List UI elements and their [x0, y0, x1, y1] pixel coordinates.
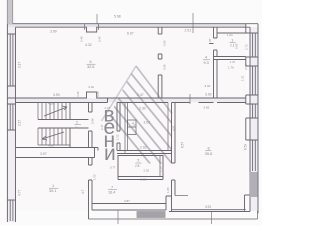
- svg-text:0.40: 0.40: [98, 36, 102, 42]
- right wall window4 mullions: [253, 140, 256, 171]
- bathroom toilet fixture: [128, 120, 137, 135]
- bathroom bottom wall: [117, 151, 172, 154]
- room3 bottom wall: [214, 57, 246, 60]
- svg-text:3.92: 3.92: [205, 93, 212, 97]
- left wall window2 mullions (stairs): [10, 104, 13, 130]
- svg-text:3.02: 3.02: [205, 84, 211, 88]
- svg-text:2.47: 2.47: [100, 124, 104, 130]
- svg-text:2.8: 2.8: [135, 164, 140, 168]
- left wall window2 sills: [7, 104, 15, 130]
- svg-text:6: 6: [90, 60, 92, 64]
- left outer wall outer line: [6, 0, 8, 222]
- svg-text:l.k: l.k: [75, 126, 79, 130]
- svg-text:0.45: 0.45: [76, 91, 80, 97]
- svg-text:2: 2: [76, 121, 78, 125]
- dimension tick x211.7: [211, 212, 213, 225]
- svg-text:0.77: 0.77: [110, 166, 116, 170]
- watermark hatch stripes: [97, 71, 225, 214]
- svg-text:2.87: 2.87: [124, 199, 130, 203]
- svg-text:2.47: 2.47: [137, 93, 144, 97]
- svg-text:3: 3: [232, 39, 234, 43]
- label fraction bars: [49, 43, 236, 190]
- stairs upper arrow: [44, 106, 67, 116]
- svg-text:4.7: 4.7: [81, 189, 85, 194]
- middle wall door jamb tick: [107, 98, 109, 103]
- svg-text:2.91: 2.91: [185, 29, 192, 33]
- svg-text:1.87: 1.87: [208, 38, 212, 44]
- room7 bottom wall: [92, 204, 166, 211]
- svg-text:4.26: 4.26: [48, 143, 54, 147]
- room3 top inner line: [217, 32, 246, 34]
- svg-text:2.02: 2.02: [144, 121, 151, 125]
- svg-text:0.45: 0.45: [96, 91, 100, 97]
- right wall grey segment: [250, 172, 258, 197]
- svg-text:0.89: 0.89: [163, 64, 167, 70]
- svg-text:1.01: 1.01: [227, 33, 233, 37]
- svg-text:9.3: 9.3: [204, 61, 209, 65]
- left wall window1 sills: [7, 34, 15, 86]
- right wall window2 mullions: [253, 66, 256, 95]
- right wall window1 mullions: [253, 33, 256, 57]
- top wall outer line: [7, 23, 258, 25]
- svg-text:1.47: 1.47: [230, 60, 236, 64]
- right outer wall outer line: [257, 24, 259, 214]
- svg-text:0.40: 0.40: [89, 85, 95, 89]
- svg-text:6.07: 6.07: [127, 32, 134, 36]
- svg-text:1.76: 1.76: [228, 66, 234, 70]
- hall right wall x117-120 with door gap: [117, 103, 120, 151]
- stairs bottom thick wall: [15, 148, 98, 158]
- svg-text:и: и: [104, 142, 116, 165]
- grey block outline: [137, 212, 165, 218]
- svg-text:0.95: 0.95: [235, 43, 239, 49]
- pipe chase x125-127.5: [125, 103, 128, 154]
- bottom grey block fill: [137, 212, 165, 218]
- room4 right wall (x213.5-217) with door gap: [214, 27, 218, 98]
- svg-text:2.30: 2.30: [139, 107, 146, 111]
- svg-text:3.91: 3.91: [205, 205, 211, 209]
- left wall inner line: [15, 27, 17, 222]
- room5 bottom double line: [118, 177, 163, 180]
- svg-text:32.6: 32.6: [87, 65, 94, 69]
- svg-text:2.17: 2.17: [18, 62, 22, 68]
- svg-text:35.6: 35.6: [205, 152, 212, 156]
- svg-text:3.99: 3.99: [50, 29, 57, 33]
- right wall window3 mullions: [253, 104, 256, 118]
- svg-text:2.02: 2.02: [144, 169, 150, 173]
- svg-text:3.97: 3.97: [40, 152, 47, 156]
- room8 bottom wall: [169, 210, 250, 212]
- stairs right wall x88.5-92 with door gap: [89, 103, 93, 148]
- middle wall upper line with niche up: [7, 92, 245, 98]
- bathroom right wall x168-171.5: [167, 103, 169, 151]
- dimension extension tick x190 mid wall: [189, 94, 191, 104]
- top wall niche jamb ticks: [85, 24, 99, 30]
- svg-text:16.4: 16.4: [108, 191, 115, 195]
- svg-text:4.32: 4.32: [85, 43, 92, 47]
- room3 door leaf tick: [209, 38, 217, 50]
- svg-text:3.82: 3.82: [204, 106, 210, 110]
- svg-text:8: 8: [208, 146, 210, 150]
- stairs lower arrow: [42, 132, 64, 140]
- svg-text:6.57: 6.57: [181, 142, 185, 148]
- room5 box: [118, 156, 163, 177]
- left wall window1 mullions: [10, 34, 13, 86]
- svg-text:1.51: 1.51: [241, 75, 245, 81]
- room5 inner right line: [159, 156, 161, 177]
- right wall bottom corner pier: [245, 195, 259, 211]
- svg-text:6.59: 6.59: [244, 144, 248, 150]
- right wall corner pier: [246, 24, 258, 33]
- top wall inner line with niche: [16, 27, 251, 32]
- stairs upper flight treads: [38, 103, 66, 120]
- room8 step tick y195.5: [175, 195, 188, 197]
- svg-text:0.57: 0.57: [172, 125, 176, 131]
- left outer wall top grey edge: [12, 0, 14, 24]
- svg-text:2.23: 2.23: [141, 177, 147, 181]
- svg-text:2.52: 2.52: [244, 64, 248, 70]
- room6 right wall (x158.2-161.9) with two door gaps: [158, 27, 162, 34]
- left wall window3 sill: [7, 199, 15, 201]
- left wall window3 mullions (room1): [10, 200, 13, 221]
- svg-text:0.90: 0.90: [163, 40, 167, 46]
- right wall pier4: [246, 118, 258, 140]
- dimension and label texts: [18, 15, 249, 210]
- middle wall lower line with door gap: [16, 102, 246, 104]
- stairs flights right edge: [69, 103, 71, 148]
- watermark logo right edge: [136, 66, 172, 114]
- right wall pier3: [246, 95, 258, 104]
- right wall pier2: [246, 57, 258, 66]
- watermark logo triangle left edge: [102, 66, 137, 121]
- watermark letters: [104, 104, 116, 166]
- stairs lower flight treads: [38, 128, 66, 145]
- svg-text:1.00: 1.00: [93, 174, 97, 180]
- svg-text:1: 1: [52, 184, 54, 188]
- dimension extension line x193: [192, 13, 194, 33]
- svg-text:2.27: 2.27: [105, 106, 111, 110]
- svg-text:4.26: 4.26: [48, 102, 54, 106]
- svg-text:4.77: 4.77: [18, 190, 22, 196]
- svg-text:1.80: 1.80: [166, 187, 170, 193]
- room1 right wall x88.5-92 with door gap: [89, 158, 93, 220]
- top-left wall grey fill: [7, 0, 12, 24]
- svg-text:2.72: 2.72: [245, 44, 249, 50]
- svg-text:1.10: 1.10: [159, 166, 163, 172]
- svg-text:0.40: 0.40: [80, 36, 84, 42]
- svg-text:2.17: 2.17: [18, 120, 22, 126]
- svg-text:30.1: 30.1: [49, 189, 56, 193]
- svg-text:4: 4: [205, 56, 207, 60]
- stairs lower flight bottom line: [38, 144, 70, 146]
- svg-text:2.92: 2.92: [140, 146, 147, 150]
- dimension extension tick x97 above top wall: [96, 14, 98, 24]
- stairs landing lines: [38, 120, 89, 129]
- room8 left wall x171.5-175 with door gap: [172, 163, 176, 212]
- right outer wall inner line: [249, 27, 251, 211]
- svg-text:1.52: 1.52: [116, 134, 120, 140]
- dimension tick x118: [117, 210, 119, 224]
- svg-text:7: 7: [111, 186, 113, 190]
- svg-text:5: 5: [138, 159, 140, 163]
- svg-text:0.98: 0.98: [91, 118, 95, 124]
- svg-text:3.90: 3.90: [53, 93, 60, 97]
- room7 right pier x166: [166, 196, 172, 210]
- svg-text:5.98: 5.98: [114, 15, 121, 19]
- stairs bottom wall jog box: [93, 148, 98, 158]
- balcony line: [89, 211, 258, 219]
